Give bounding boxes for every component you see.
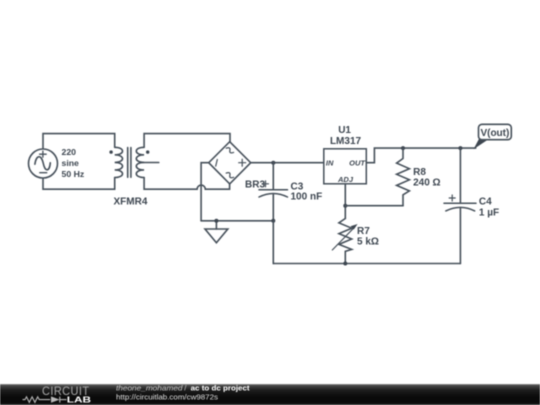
node R7 bottom: [343, 262, 347, 266]
transformer XFMR4 center tap stub: [144, 162, 159, 164]
transformer XFMR4 secondary winding: [136, 147, 149, 177]
svg-text:R8: R8: [413, 167, 426, 178]
svg-text:sine: sine: [62, 158, 80, 168]
node ground rail junction: [214, 219, 218, 223]
wire bridge plus to U1 IN: [251, 162, 324, 164]
wire U1 OUT to top rail: [366, 148, 475, 163]
rheostat R7: [332, 219, 357, 264]
node R8 top: [401, 146, 405, 150]
svg-text:V(out): V(out): [480, 128, 509, 139]
node ADJ junction: [343, 204, 347, 208]
label U1: [330, 125, 362, 147]
label R8: [413, 167, 440, 188]
wire bridge AC2 to ground rail: [201, 163, 209, 221]
svg-text:IN: IN: [326, 158, 334, 167]
label C3: [291, 182, 323, 203]
wire secondary top to bridge: [144, 134, 230, 148]
wire secondary bottom to bridge with hop: [144, 178, 230, 190]
label C4: [479, 196, 499, 218]
svg-text:R7: R7: [357, 226, 370, 237]
CircuitLab logo: [23, 384, 92, 404]
svg-text:240 Ω: 240 Ω: [413, 178, 440, 189]
svg-text:50 Hz: 50 Hz: [62, 169, 85, 179]
transformer XFMR4 primary winding: [109, 147, 122, 177]
svg-text:100 nF: 100 nF: [291, 192, 323, 203]
label V1 value 220 sine 50 Hz: [62, 147, 85, 179]
svg-text:ADJ: ADJ: [337, 175, 354, 184]
bridge rectifier BR3: [209, 142, 251, 184]
svg-text:LM317: LM317: [330, 136, 362, 147]
node bridge output: [271, 161, 275, 165]
svg-text:http://circuitlab.com/cw9872s: http://circuitlab.com/cw9872s: [116, 393, 218, 402]
wire C3 to bottom rail: [272, 221, 274, 264]
svg-text:5 kΩ: 5 kΩ: [357, 237, 379, 248]
ground rail wire: [201, 220, 273, 222]
svg-text:220: 220: [62, 147, 77, 157]
wire source plus to primary top: [43, 134, 115, 149]
wire source minus to primary bottom: [43, 178, 115, 190]
bottom rail wire: [273, 263, 460, 265]
label R7: [357, 226, 379, 248]
svg-text:C4: C4: [479, 196, 492, 207]
wire U1 ADJ down: [344, 184, 346, 219]
svg-text:LAB: LAB: [67, 394, 91, 404]
node C4 top: [458, 146, 462, 150]
ground: [205, 221, 228, 243]
svg-text:BR3: BR3: [245, 179, 265, 190]
capacitor C3: [259, 163, 288, 221]
svg-text:XFMR4: XFMR4: [114, 197, 148, 208]
wire R8 bottom to ADJ: [345, 205, 403, 207]
svg-text:1 µF: 1 µF: [479, 208, 499, 219]
footer bar: [0, 384, 540, 405]
svg-text:OUT: OUT: [349, 158, 366, 167]
svg-text:U1: U1: [338, 125, 351, 136]
resistor R8: [397, 148, 410, 206]
voltage source V1: [29, 149, 58, 178]
transformer XFMR4 core: [128, 148, 131, 178]
capacitor C4: [444, 148, 476, 263]
node V(out) flag: [474, 124, 512, 149]
node C3 bottom: [271, 219, 275, 223]
op-amp regulator U1 LM317: [324, 149, 367, 184]
footer text: [116, 383, 250, 401]
